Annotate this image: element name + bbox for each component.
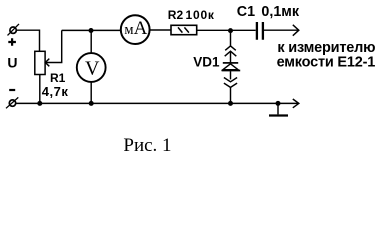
svg-text:к измерителю: к измерителю [277,40,375,56]
svg-text:100к: 100к [186,8,215,22]
svg-text:C1: C1 [237,4,255,20]
svg-text:Рис. 1: Рис. 1 [123,135,171,156]
svg-text:R1: R1 [50,71,66,85]
svg-text:R2: R2 [168,8,184,22]
svg-text:U: U [7,54,17,70]
svg-text:мА: мА [124,18,147,39]
svg-text:4,7к: 4,7к [42,84,69,99]
svg-text:VD1: VD1 [193,54,220,69]
svg-text:емкости Е12-1: емкости Е12-1 [277,54,376,70]
svg-text:0,1мк: 0,1мк [261,4,299,20]
svg-text:V: V [85,58,100,80]
